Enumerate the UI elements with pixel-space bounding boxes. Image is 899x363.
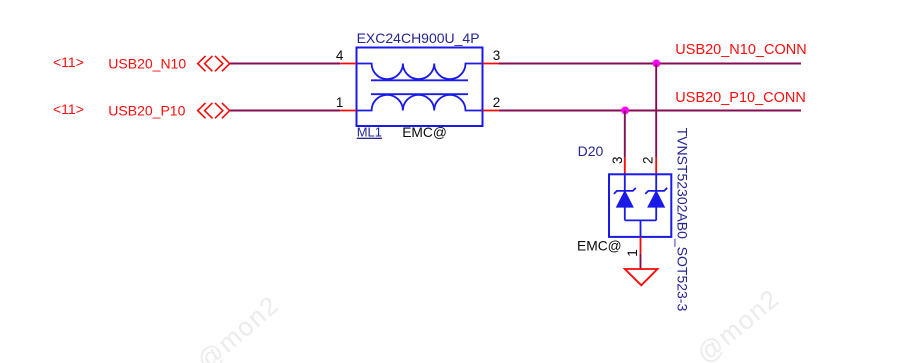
net label USB20_N10_CONN <box>675 42 806 58</box>
D20 pin 1 stub <box>640 237 642 269</box>
junction dot on USB20_P10 <box>621 107 629 115</box>
junction dot on USB20_N10 <box>653 60 661 68</box>
choke bottom winding <box>357 94 483 110</box>
pin number 2 <box>493 95 501 110</box>
svg-text:@mon2: @mon2 <box>691 283 786 363</box>
choke pin 1 stub <box>340 110 356 112</box>
choke EMC@ label <box>402 125 447 140</box>
page ref <11> for USB20_P10 <box>53 101 84 117</box>
refdes ML1 <box>357 125 382 140</box>
TVS anode rail <box>625 220 656 237</box>
svg-text:1: 1 <box>625 249 640 257</box>
svg-text:2: 2 <box>641 156 656 164</box>
svg-text:USB20_N10_CONN: USB20_N10_CONN <box>675 42 806 58</box>
svg-text:EXC24CH900U_4P: EXC24CH900U_4P <box>357 30 480 46</box>
vertical wire from P10 junction to D20 pin 3 <box>624 111 626 175</box>
ground symbol <box>625 269 658 285</box>
net label USB20_P10_CONN <box>675 90 806 106</box>
svg-text:ML1: ML1 <box>357 125 382 140</box>
svg-text:USB20_P10_CONN: USB20_P10_CONN <box>675 90 806 106</box>
svg-text:3: 3 <box>493 48 501 63</box>
net label USB20_N10 <box>108 55 186 71</box>
TVS EMC@ label <box>577 238 622 253</box>
TVS left diode <box>614 174 636 220</box>
choke ML1 body <box>357 48 483 127</box>
wire USB20_P10 left <box>230 110 340 112</box>
refdes D20 <box>578 143 604 159</box>
off-page port USB20_P10 <box>198 103 230 118</box>
pin number 4 <box>336 48 344 63</box>
svg-text:EMC@: EMC@ <box>577 238 622 253</box>
svg-text:1: 1 <box>336 95 344 110</box>
wire USB20_N10 right <box>499 63 801 65</box>
svg-text:USB20_P10: USB20_P10 <box>108 102 185 118</box>
pin number 1 (D20) <box>625 249 640 257</box>
svg-text:<11>: <11> <box>53 101 84 117</box>
part name TVNST52302AB0_SOT523-3 <box>674 128 690 312</box>
pin number 1 <box>336 95 344 110</box>
choke ML1 value label EXC24CH900U_4P <box>357 30 480 46</box>
svg-text:EMC@: EMC@ <box>402 125 447 140</box>
watermark bottom-left <box>191 289 285 363</box>
svg-text:USB20_N10: USB20_N10 <box>108 55 186 71</box>
TVS D20 body <box>609 174 671 237</box>
page ref <11> for USB20_N10 <box>53 54 84 70</box>
off-page port USB20_N10 <box>198 56 230 71</box>
svg-text:<11>: <11> <box>53 54 84 70</box>
svg-text:TVNST52302AB0_SOT523-3: TVNST52302AB0_SOT523-3 <box>674 128 690 312</box>
net label USB20_P10 <box>108 102 185 118</box>
watermark bottom-right <box>691 283 786 363</box>
pin number 3 <box>493 48 501 63</box>
svg-text:4: 4 <box>336 48 344 63</box>
pin number 3 (D20) <box>610 156 625 164</box>
choke pin 3 stub <box>483 63 500 65</box>
svg-text:3: 3 <box>610 156 625 164</box>
choke top winding <box>357 64 483 81</box>
svg-text:2: 2 <box>493 95 501 110</box>
TVS right diode <box>645 174 667 220</box>
choke pin 4 stub <box>340 63 356 65</box>
wire USB20_N10 left <box>230 63 340 65</box>
wire USB20_P10 right <box>499 110 801 112</box>
svg-text:@mon2: @mon2 <box>191 289 285 363</box>
pin number 2 (D20) <box>641 156 656 164</box>
svg-text:D20: D20 <box>578 143 604 159</box>
choke pin 2 stub <box>483 110 500 112</box>
vertical wire from N10 junction to D20 pin 2 <box>655 64 657 175</box>
